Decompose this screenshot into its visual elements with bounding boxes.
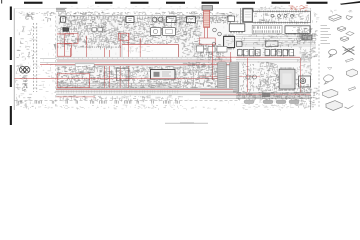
relay K2 (163, 28, 176, 36)
margin wedge icon (346, 16, 352, 20)
red trace vertical x128 (128, 33, 130, 90)
main processor QFP U401 (279, 69, 295, 89)
margin cross-out mark (343, 47, 355, 55)
title text block (56, 8, 67, 11)
margin plate icon low (346, 58, 354, 62)
bolt head (gray cap) (202, 6, 213, 11)
U401 side pins (277, 75, 281, 87)
red trace vertical x212 (211, 44, 213, 80)
U201 top pin row (254, 10, 308, 12)
margin 3d box bottom (326, 101, 342, 111)
antenna jack cluster (26, 13, 35, 19)
transformer left ticks (241, 11, 243, 20)
margin check scribble (345, 106, 354, 109)
hatched connector column CN3 (218, 62, 227, 92)
U201 inner trimmer circles (271, 14, 294, 17)
bus 1 ticks (59, 58, 227, 59)
red trace vertical x140 (139, 38, 141, 64)
sparse dashed verticals (243, 62, 253, 92)
wiring bus band 2 left (56, 88, 233, 95)
ribbon cable dashed pair (34, 23, 37, 92)
red trace pair below bolt (205, 28, 208, 39)
notes right of sheet edge (313, 13, 320, 23)
head drum circles (300, 78, 306, 84)
red trace horizontal y76 (200, 76, 260, 78)
servo logic cluster (258, 62, 281, 94)
mechanism window detail (124, 46, 152, 53)
component row below bus2 (56, 96, 183, 103)
record block box (151, 70, 176, 80)
margin cassette icon (329, 15, 341, 22)
white boxes row below bolt (197, 46, 228, 52)
power transformer T901 (241, 8, 253, 24)
small box right of bolt (228, 16, 235, 22)
red trace vertical x109 (108, 50, 110, 90)
trimmers near U301 (212, 28, 221, 46)
bottom right labels (242, 105, 294, 110)
red trace box B1 (64, 34, 78, 44)
right column sparse y54 (298, 54, 313, 63)
DIP IC U202 (229, 24, 245, 32)
top band border line (58, 14, 232, 16)
wire rows y83-87 (56, 83, 181, 87)
head drum box (299, 76, 311, 87)
margin 3d box small 1 (338, 26, 346, 31)
top component row (59, 16, 234, 26)
DIP IC U203 (285, 26, 310, 34)
bus 2 left red line (56, 89, 233, 91)
red trace vertical x120 (119, 33, 121, 90)
system control cluster (182, 62, 220, 95)
margin cube battery (347, 69, 358, 77)
red box around column base (199, 38, 215, 44)
dashed vertical right x319 (318, 44, 320, 108)
bus 1 red line A (57, 60, 232, 62)
red trace horizontal y78 (15, 78, 233, 80)
wire rows y57-62 right (236, 58, 310, 63)
margin tiny mark y66 (328, 68, 333, 70)
footer page rule (165, 122, 208, 125)
U401 top pins (280, 67, 293, 69)
red trace vertical x104 (103, 48, 105, 90)
right column cluster y28 (296, 28, 318, 44)
U401 right pins (296, 71, 299, 85)
small logic boxes row (238, 49, 294, 55)
dashed vertical divider x56 (55, 16, 57, 108)
flow arrow left (54, 44, 59, 51)
bottom dashed bus line (15, 99, 241, 101)
right cluster y48 (300, 48, 318, 59)
bottom right wiring (236, 92, 312, 102)
left io cluster 2 (16, 94, 34, 107)
record stage cluster (116, 66, 183, 95)
U301 top pins (224, 35, 233, 37)
aux jack cluster (43, 13, 54, 23)
circuit area light wash left (56, 16, 232, 96)
red trace horizontal y97 left (57, 96, 96, 98)
IF stage cluster (104, 23, 153, 50)
connector strip CN2 (252, 25, 282, 33)
top row relay circles (152, 17, 163, 22)
red hatched column shaft (204, 10, 210, 27)
left io ticks (16, 64, 25, 101)
head drum marks (299, 85, 309, 87)
ribbon cable rungs (34, 28, 37, 88)
preamp box marks (86, 65, 93, 72)
CN2 upper pins (254, 26, 280, 29)
top row pin ticks (61, 16, 228, 18)
center glue cluster (182, 44, 224, 63)
microcontroller QFP U301 (224, 36, 235, 47)
margin 3d box small 2 (341, 36, 349, 41)
input stage cluster (57, 23, 106, 50)
motor winding (22, 76, 28, 92)
margin cassette 3d low (323, 89, 338, 98)
margin balloon icon (329, 49, 337, 57)
U203 label (292, 27, 309, 35)
margin plate low right (349, 87, 356, 91)
top row box inner marks (62, 19, 193, 21)
wiring bus band 2 right (200, 93, 311, 99)
bottom right wire rows (236, 93, 310, 98)
top row component boxes (61, 17, 196, 23)
red trace vertical x230 (230, 52, 232, 92)
CN2 lower pins (253, 30, 279, 33)
wiring bus band 1 (56, 57, 232, 66)
margin parts list text column (321, 26, 332, 44)
bus row cluster boxes (237, 41, 279, 47)
U201 bottom pin row (254, 22, 308, 24)
eq network box (117, 68, 130, 81)
paper grain overall (16, 9, 313, 110)
footer micro text (180, 122, 194, 124)
right col mid marks (297, 65, 313, 77)
red trace vertical x300 (299, 58, 301, 96)
bus 2 ticks (58, 90, 178, 93)
schematic sheet border (14, 8, 310, 110)
U401 bottom pins (280, 89, 294, 91)
red box bias osc (57, 74, 89, 88)
top crop marks (1, 0, 360, 5)
capsule component C4 (289, 100, 299, 104)
mechanism window white box (122, 44, 179, 59)
trimmer circles mid (246, 75, 257, 79)
capsule component C1 (244, 100, 254, 104)
mid right sparse (240, 62, 259, 95)
red trace B1 stub (57, 34, 74, 56)
relay K1 (151, 28, 162, 36)
U301 inner (226, 39, 236, 46)
wiring right of bolt (213, 14, 238, 24)
cluster below bolt (196, 45, 225, 62)
red trace vertical x247 (246, 58, 248, 92)
tick row under IF text (78, 46, 121, 48)
preamp white box (75, 64, 94, 72)
red trace vertical x86 (85, 36, 87, 61)
sheet top faint line (14, 8, 310, 10)
red wire row y57 (216, 56, 300, 58)
U301 bottom pins (224, 48, 233, 50)
gray note above U201 (258, 6, 285, 11)
U201 inner labels (255, 13, 309, 24)
bus 2 right red line (200, 93, 311, 95)
logic dashed bus rows (236, 35, 316, 46)
bus row dark box (302, 35, 312, 40)
dark cluster x262 (262, 93, 270, 98)
small shield box (63, 28, 69, 31)
left crop marks (10, 7, 12, 126)
hatched connector column CN4 (230, 62, 239, 92)
right column boxes y88 (294, 88, 319, 102)
margin label a (330, 10, 336, 13)
oscillator cluster (150, 16, 202, 46)
red box servo (119, 33, 130, 40)
left input column (16, 26, 33, 60)
white boxes row mid (92, 28, 102, 31)
bottom labels row (20, 105, 181, 110)
motor M1 (20, 67, 30, 74)
right column y100 (295, 100, 317, 109)
playback stage cluster (57, 66, 119, 94)
connector hatch texture (218, 63, 239, 91)
red trace vertical stub B2 (70, 48, 72, 61)
logic boxes labels (237, 49, 295, 58)
left gap sparse marks (38, 63, 56, 98)
U202 bottom pins (230, 31, 242, 33)
capsule component C3 (276, 100, 286, 104)
red trace vertical x178 (178, 45, 180, 65)
top caption row left (19, 12, 56, 16)
red trace box B2 (57, 43, 71, 56)
bus 1 left stub lines (40, 59, 56, 63)
IC block U201 (253, 11, 311, 22)
capsule component C2 (263, 100, 273, 104)
red legend note (289, 6, 308, 11)
top caption part-number row (58, 12, 232, 17)
faint bottom text row (77, 106, 289, 111)
margin blob low (324, 75, 334, 84)
bottom tick groups (17, 101, 179, 104)
bus 1 red line B (40, 63, 232, 65)
faint notes above band (71, 6, 201, 11)
margin diamond plate (346, 32, 354, 36)
U203 bottom pins (286, 33, 307, 35)
bus row speckle (241, 34, 302, 49)
circuit area light wash right (232, 9, 311, 99)
margin label b (348, 10, 352, 12)
